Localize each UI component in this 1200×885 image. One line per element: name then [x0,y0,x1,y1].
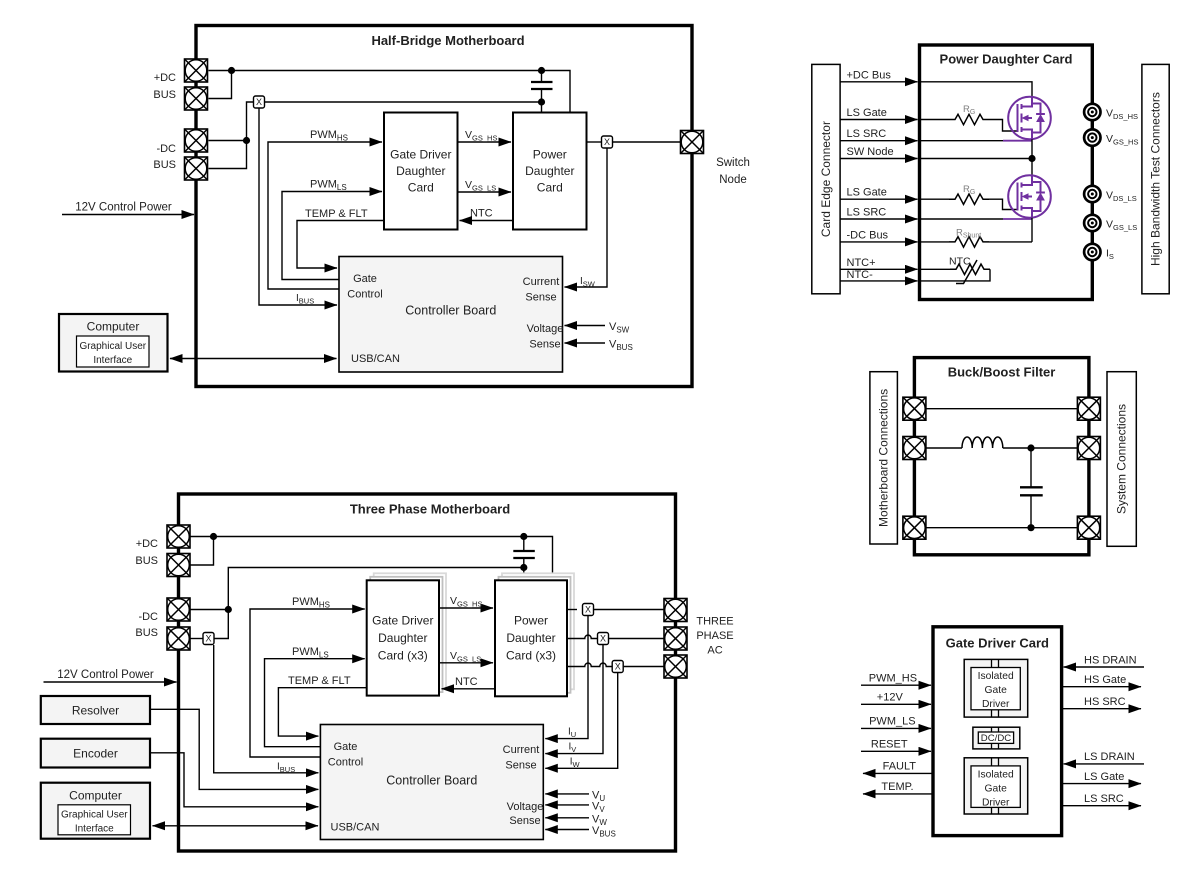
svg-text:Sense: Sense [529,339,560,351]
current sensor X3 on -DC rail (3ph) [203,633,214,645]
wire +DC rail to cap and PDC [232,71,571,113]
svg-text:Daughter: Daughter [525,164,574,178]
filter connector R1 [1077,397,1100,420]
wire +12V in [861,703,931,705]
wire LS DRAIN in [1064,763,1144,765]
svg-text:-DC: -DC [156,143,176,155]
svg-text:PHASE: PHASE [696,630,733,642]
junction cap top (3ph) [520,533,527,540]
svg-text:Sense: Sense [509,815,540,827]
three phase motherboard outline [179,494,676,851]
svg-text:+12V: +12V [877,692,904,704]
power daughter card stack shadows (3ph) [499,573,575,693]
AC connector U [664,599,687,622]
filter connector L2 [903,437,926,460]
wire U2 to switch node sensor [587,141,602,143]
svg-text:DC/DC: DC/DC [981,733,1011,744]
filter connector L1 [903,397,926,420]
wire NTC+ pin [840,268,917,270]
junction -DC [243,137,250,144]
svg-text:+DC: +DC [136,538,158,550]
wire -DC J4 up to X sensor [209,102,254,169]
wire IBUS from X3 to controller (3ph) [214,645,319,773]
resolver box [41,696,150,724]
wire -DC J8 to junction (3ph) [191,609,229,611]
wire USB/CAN computer link [170,358,337,360]
svg-text:Graphical User: Graphical User [79,341,146,352]
wire +DC rail to cap and PDC (3ph) [214,537,553,581]
wire LS Gate out [1062,783,1141,785]
svg-text:Sense: Sense [525,292,556,304]
-DC bus connector J4 [185,157,208,180]
wire LS Gate pin [840,198,917,200]
svg-text:Power Daughter Card: Power Daughter Card [940,52,1073,67]
wire IW from X6 to controller [545,673,617,768]
svg-text:Isolated: Isolated [978,770,1014,781]
isolated gate driver U8 inner [971,766,1020,808]
svg-text:BUS: BUS [153,89,176,101]
wire bottom rail [926,527,1077,529]
svg-text:LS SRC: LS SRC [847,128,887,140]
wire VGS_HS U1 to U2 [458,141,512,143]
DC/DC converter outer [973,727,1020,749]
svg-text:Gate Driver: Gate Driver [372,614,433,628]
svg-text:NTC: NTC [949,256,971,268]
gate driver daughter card x3 U4 [367,580,439,695]
wire X1 to cap bottom [265,101,542,103]
wire PWMHS controller to U1 [268,142,382,289]
wire PWMHS controller to U4 (3ph) [250,609,365,757]
wire X4 to AC connector U [594,609,664,611]
thermistor strike line [956,260,977,284]
svg-text:Half-Bridge Motherboard: Half-Bridge Motherboard [371,33,524,48]
svg-text:Motherboard Connections: Motherboard Connections [877,389,891,527]
DC link capacitor C2 (3ph) [513,537,535,581]
svg-text:HS DRAIN: HS DRAIN [1084,654,1137,666]
svg-text:Driver: Driver [982,798,1010,809]
wire NTC U2 to U1 [460,220,514,222]
filter capacitor C3 [1020,448,1043,528]
isolation ticks U8 [992,758,999,814]
filter connector L3 [903,516,926,539]
isolated gate driver U7 inner [971,668,1020,710]
svg-text:RESET: RESET [871,739,908,751]
+DC bus connector J6 [167,525,190,548]
svg-text:THREE: THREE [696,616,733,628]
wire SW Node to junction [920,158,1033,160]
power daughter card x3 U5 [495,580,567,696]
computer box (3ph) [41,783,150,839]
svg-text:12V Control Power: 12V Control Power [57,669,154,681]
svg-text:Current: Current [523,276,560,288]
wire VU sense [545,793,589,795]
svg-text:USB/CAN: USB/CAN [331,822,380,834]
wire U5 phase V with hop [567,635,597,639]
wire X5 to AC connector V [609,638,664,640]
BNC VGS_HS [1084,129,1100,145]
current sensor X6 phase W [612,661,623,673]
gate driver daughter card U1 [384,113,458,230]
wire HS SRC out [1062,708,1141,710]
power daughter card outline [920,45,1093,300]
DC link capacitor C1 [531,71,553,113]
BNC IS [1084,244,1100,260]
svg-text:LS DRAIN: LS DRAIN [1084,751,1135,763]
svg-text:PWM_LS: PWM_LS [869,716,915,728]
GUI box [77,336,150,367]
svg-text:-DC Bus: -DC Bus [847,229,889,241]
wire VV sense [545,804,589,806]
high bandwidth test connectors box [1142,64,1169,293]
wire Q1 source to SW node [1031,139,1033,175]
svg-text:NTC: NTC [470,208,493,220]
svg-text:Daughter: Daughter [396,164,445,178]
svg-text:Graphical User: Graphical User [61,810,128,821]
svg-text:Card (x3): Card (x3) [506,649,556,663]
-DC bus connector J9 [167,627,190,650]
AC connector V [664,627,687,650]
svg-text:Three Phase Motherboard: Three Phase Motherboard [350,502,510,517]
svg-text:Card: Card [408,181,434,195]
wire VSW sense [565,325,606,327]
junction filter mid [1027,444,1034,451]
svg-text:Controller Board: Controller Board [405,304,496,318]
wire RG1 to Q1 gate [989,120,1018,132]
wire PWMLS controller to U1 [282,192,382,280]
svg-text:BUS: BUS [153,159,176,171]
wire IBUS from X1 to controller [259,109,337,306]
junction cap top [538,67,545,74]
wire X3 to -DC rail to cap bottom (3ph) [215,568,524,639]
wire NTC return [920,269,991,281]
wire FAULT out [863,772,933,774]
svg-text:PWM_HS: PWM_HS [869,673,917,685]
svg-text:High Bandwidth Test Connectors: High Bandwidth Test Connectors [1149,92,1163,266]
-DC bus connector J8 [167,598,190,621]
inductor L [962,437,1003,448]
wire 12V control power [62,214,194,216]
wire TEMP &amp; FLT U4 to controller (3ph) [278,688,366,736]
svg-text:LS SRC: LS SRC [847,207,887,219]
wire shunt to Q2 source [989,241,1032,243]
wire Q2 source to shunt [1031,218,1033,242]
wire ISW from X2 to controller [565,149,608,288]
wire +DC J6 to junction (3ph) [191,536,214,538]
svg-text:Gate Driver Card: Gate Driver Card [946,636,1049,651]
wire top rail [926,408,1077,410]
svg-text:HS SRC: HS SRC [1084,696,1126,708]
wire +DC bus to Q1 drain [920,82,1033,97]
BNC VGS_LS [1084,215,1100,231]
wire L2 to inductor [926,447,962,449]
current sensor X4 phase U [583,604,594,616]
wire HS DRAIN in [1064,666,1144,668]
svg-text:Daughter: Daughter [378,631,427,645]
wire PWMLS controller to U4 (3ph) [265,659,365,747]
wire VBUS sense (3ph) [545,829,589,831]
AC connector W [664,655,687,678]
svg-text:NTC-: NTC- [847,269,874,281]
svg-text:NTC: NTC [455,676,478,688]
junction -DC (3ph) [225,606,232,613]
svg-text:Daughter: Daughter [506,631,555,645]
computer box [59,314,168,372]
svg-text:Computer: Computer [69,789,122,803]
svg-text:Gate: Gate [353,273,377,285]
wire IV from X5 to controller [545,645,603,754]
svg-text:TEMP & FLT: TEMP & FLT [288,675,351,687]
isolated gate driver U8 outer [964,758,1027,814]
gate driver daughter card stack shadows (3ph) [370,573,446,692]
svg-text:Interface: Interface [93,355,132,366]
isolation ticks U7 top [992,659,999,717]
wire U5 phase W with hops [567,663,612,667]
svg-text:Node: Node [719,174,747,186]
svg-text:Driver: Driver [982,699,1010,710]
wire 12V control power (3ph) [44,681,177,683]
wire resolver to controller [150,709,318,789]
junction cap bottom [538,98,545,105]
power daughter card U2 [513,113,587,230]
svg-text:SW Node: SW Node [847,146,894,158]
thermistor NTC element [920,268,951,270]
svg-text:HS Gate: HS Gate [1084,674,1126,686]
isolated gate driver U7 outer [964,659,1027,717]
svg-text:Card: Card [537,181,563,195]
svg-text:NTC+: NTC+ [847,257,876,269]
svg-text:Current: Current [503,744,540,756]
svg-text:USB/CAN: USB/CAN [351,353,400,365]
GUI box (3ph) [58,805,131,835]
resistor RG2 [920,198,950,200]
junction cap bottom (3ph) [520,564,527,571]
wire LS SRC out [1062,805,1141,807]
filter connector R3 [1077,516,1100,539]
controller board U3 [339,257,563,373]
wire HS source sense [920,140,1004,142]
svg-text:Sense: Sense [505,760,536,772]
svg-text:Power: Power [533,148,567,162]
wire X6 to AC connector W [624,666,664,668]
wire HS Gate out [1062,686,1141,688]
card edge connector box [812,64,840,293]
wire IU from X4 to controller [545,616,588,739]
svg-text:Control: Control [347,289,382,301]
wire X2 to switch node connector [613,141,680,143]
wire +DC J1 to junction [209,70,232,72]
current sensor X2 switch node [602,136,613,148]
svg-text:Resolver: Resolver [72,704,119,718]
wire inductor to R2 [1003,447,1077,449]
svg-text:Controller Board: Controller Board [386,774,477,788]
junction +DC [228,67,235,74]
+DC bus connector J2 [185,87,208,110]
isolation ticks DC/DC [992,727,999,749]
junction +DC (3ph) [210,533,217,540]
svg-text:Gate: Gate [334,741,358,753]
wire HS gate pin (LS Gate) [840,119,917,121]
svg-text:Control: Control [328,757,363,769]
-DC bus connector J3 [185,129,208,152]
wire VBUS sense [565,342,606,344]
svg-text:BUS: BUS [135,555,158,567]
controller board U6 (3ph) [320,725,543,840]
motherboard connections box [870,372,898,544]
+DC bus connector J1 [185,59,208,82]
gate driver card outline [933,627,1062,836]
svg-text:Isolated: Isolated [978,671,1014,682]
wire TEMP &amp; FLT U1 to controller [297,221,384,269]
svg-text:FAULT: FAULT [883,761,917,773]
wire +DC J2 up to junction [209,71,232,99]
MOSFET Q1 [1008,97,1051,140]
svg-text:Buck/Boost Filter: Buck/Boost Filter [948,365,1056,380]
wire +DC J7 up to junction (3ph) [191,537,214,566]
wire LS source sense [920,218,1004,220]
BNC VDS_LS [1084,186,1100,202]
svg-text:Card (x3): Card (x3) [378,649,428,663]
junction filter bottom [1027,524,1034,531]
svg-text:LS Gate: LS Gate [1084,771,1124,783]
half-bridge motherboard outline [196,26,692,387]
wire SW Node pin [840,158,917,160]
wire encoder to controller [150,753,318,807]
svg-text:Card Edge Connector: Card Edge Connector [819,121,833,237]
BNC VDS_HS [1084,104,1100,120]
filter connector R2 [1077,437,1100,460]
wire VGS_LS U4 to U5 (3ph) [439,662,493,664]
svg-text:+DC Bus: +DC Bus [847,69,892,81]
svg-text:Interface: Interface [75,824,114,835]
wire RG2 to Q2 gate [989,199,1018,209]
wire TEMP out [863,793,933,795]
wire -DC J3 to junction [209,140,247,142]
switch node connector J5 [681,131,704,154]
svg-text:Voltage: Voltage [527,323,564,335]
encoder box [41,739,150,768]
resistor RG1 [920,119,950,121]
svg-text:+DC: +DC [154,72,176,84]
svg-text:AC: AC [707,645,722,657]
svg-text:Switch: Switch [716,157,750,169]
wire -DC J9 to X sensor (3ph) [191,638,203,640]
junction SW node [1028,155,1035,162]
wire NTC U5 to U4 (3ph) [442,688,496,690]
svg-text:12V Control Power: 12V Control Power [75,202,172,214]
buck/boost filter outline [914,358,1089,555]
svg-text:-DC: -DC [138,611,158,623]
wire VW sense [545,817,589,819]
wire HS src pin (LS SRC) [840,140,917,142]
wire LS SRC pin [840,218,917,220]
svg-text:Gate Driver: Gate Driver [390,148,451,162]
svg-text:LS Gate: LS Gate [847,187,887,199]
svg-text:Encoder: Encoder [73,747,118,761]
wire U5 phase U to sensor X4 [567,609,577,611]
DC/DC converter inner [978,732,1013,743]
resistor RShunt [920,241,950,243]
svg-text:Voltage: Voltage [507,801,544,813]
system connections box [1107,372,1136,547]
wire -DC Bus pin [840,241,917,243]
svg-text:Computer: Computer [87,320,140,334]
wire RESET in [861,750,931,752]
+DC bus connector J7 [167,554,190,577]
svg-text:Power: Power [514,614,548,628]
wire PWM_LS in [861,727,931,729]
svg-text:TEMP.: TEMP. [881,781,913,793]
svg-text:BUS: BUS [135,627,158,639]
current sensor X1 on -DC rail [254,96,265,108]
svg-text:TEMP & FLT: TEMP & FLT [305,208,368,220]
wire +DC Bus pin [840,81,917,83]
svg-text:LS Gate: LS Gate [847,107,887,119]
wire VGS_HS U4 to U5 (3ph) [439,607,493,609]
svg-text:Gate: Gate [985,685,1008,696]
svg-text:System Connections: System Connections [1115,404,1129,514]
wire VGS_LS U1 to U2 [458,191,512,193]
wire PWM_HS in [861,684,931,686]
svg-text:Gate: Gate [985,784,1008,795]
MOSFET Q2 [1008,175,1051,218]
current sensor X5 phase V [598,633,609,645]
wire NTC- pin [840,280,917,282]
svg-text:LS SRC: LS SRC [1084,793,1124,805]
wire USB/CAN computer link (3ph) [153,825,319,827]
